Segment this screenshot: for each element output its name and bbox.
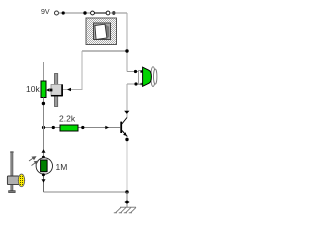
transistor Q1: [120, 118, 127, 137]
wire below LDR: [43, 174, 45, 192]
junction dot base-left column: [42, 126, 45, 129]
speaker LS1: [139, 67, 157, 87]
capacitor/preset lever: [55, 74, 58, 107]
wire junction horizontal: [82, 50, 127, 52]
junction dot: [83, 11, 86, 14]
svg-text:1M: 1M: [56, 162, 68, 172]
resistor R1 10k: [41, 81, 46, 97]
current arrow on cap wire: [67, 88, 71, 91]
wire left column mid: [43, 97, 45, 158]
LDR R3: [36, 158, 52, 174]
terminal dot: [81, 126, 84, 129]
switch SW1 symbol: [91, 11, 110, 15]
light ray arrows: [29, 157, 38, 166]
svg-text:2.2k: 2.2k: [59, 114, 76, 124]
current arrow: [105, 126, 109, 129]
junction node: [125, 49, 128, 52]
wire top rail left: [59, 12, 91, 14]
battery terminal: [55, 11, 59, 15]
current arrow collector: [124, 111, 129, 114]
ground symbol: [114, 207, 136, 213]
capacitor/preset body: [50, 85, 63, 97]
wire bottom rail: [44, 191, 128, 193]
wire gray L to capacitor: [63, 51, 82, 90]
svg-text:9V: 9V: [41, 9, 50, 16]
current arrow: [42, 173, 45, 176]
current arrow cap left: [46, 88, 50, 91]
resistor R2 2.2k: [60, 125, 78, 131]
torch lamp: [7, 151, 24, 192]
current arrow: [124, 200, 129, 203]
switch SW1 pictorial box: [86, 18, 117, 45]
wire speaker bottom: [127, 83, 142, 85]
wire cap left: [46, 89, 50, 91]
junction dot ground: [125, 190, 128, 193]
current arrow base: [52, 126, 55, 129]
wire to ground: [126, 192, 128, 207]
wire top rail right: [110, 12, 127, 14]
svg-text:10k: 10k: [26, 84, 40, 94]
wire right column: [126, 13, 128, 72]
wire collector column: [126, 84, 128, 118]
wire to speaker top: [127, 71, 142, 73]
wire base: [44, 127, 121, 129]
switch terminal dot: [112, 11, 115, 14]
emitter terminal dot: [125, 138, 128, 141]
speaker terminal dot: [134, 82, 137, 85]
current arrow above LDR: [42, 149, 46, 153]
speaker terminal dot: [134, 70, 137, 73]
current arrow: [42, 102, 45, 105]
current arrow: [62, 11, 65, 14]
wire stub above 10k: [43, 62, 45, 81]
wire emitter column: [126, 137, 128, 193]
